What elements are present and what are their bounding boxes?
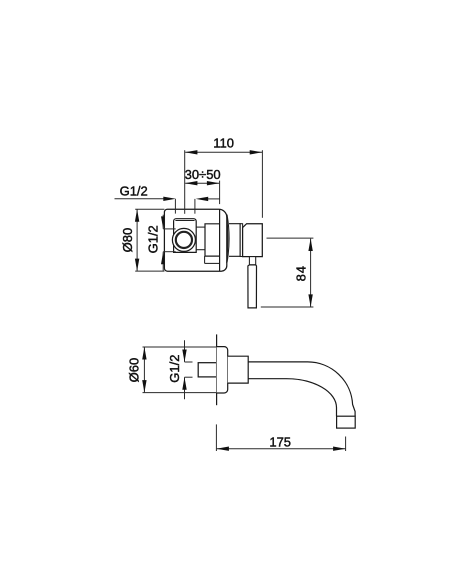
G1/2 bottom dim upper segment	[184, 340, 186, 362]
spout tip box	[337, 416, 356, 428]
G1/2 left dim down arrow	[161, 216, 165, 229]
inlet block top inner line	[175, 220, 194, 222]
spout tube outer line	[248, 362, 355, 416]
ext line right of 110	[261, 150, 263, 218]
Ø80 bottom arrow	[135, 259, 139, 272]
svg-text:110: 110	[213, 136, 234, 151]
wall flange disc	[217, 347, 228, 393]
dim 175 left arrow	[216, 447, 229, 451]
dim 84 vertical line	[310, 239, 312, 307]
dome band right arc	[227, 215, 229, 262]
G1/2 bottom bottom tick	[185, 376, 193, 378]
cartridge inner ring	[176, 232, 192, 248]
svg-text:84: 84	[294, 265, 309, 281]
G1/2 top leader arrow	[163, 197, 176, 201]
dim 84 bottom ref line	[261, 306, 314, 308]
flange behind wall	[205, 224, 219, 256]
G1/2 left dim upper segment	[162, 215, 164, 229]
Ø80 top ext line	[135, 208, 164, 210]
dim Ø60 vertical line	[143, 347, 145, 392]
right leader shaft	[206, 198, 220, 200]
dim 30÷50 line	[185, 182, 219, 184]
svg-text:Ø80: Ø80	[120, 228, 135, 253]
dome band left arc	[227, 214, 228, 263]
dim 84 down arrow	[308, 294, 312, 307]
Ø60 top ext line	[143, 346, 217, 348]
G1/2 top leader shaft	[115, 198, 167, 200]
dim 175 right ext line	[345, 437, 347, 452]
cartridge outer circle	[172, 228, 195, 251]
handle lever	[248, 265, 257, 308]
dim Ø80 vertical line	[136, 210, 138, 271]
step line upper	[196, 226, 205, 228]
G1/2 leader elbow left	[174, 199, 176, 214]
wall line lower segment	[219, 209, 221, 271]
step line lower	[196, 249, 205, 251]
Ø60 top arrow	[142, 347, 146, 360]
right leader arrow	[196, 197, 209, 201]
spout base cylinder	[228, 356, 249, 383]
dim 30÷50 left arrow	[185, 181, 198, 185]
wall line upper segment	[219, 181, 221, 205]
inlet block	[174, 219, 197, 253]
G1/2 bottom top tick	[185, 361, 193, 363]
spout thread tail	[198, 363, 216, 377]
dim 175 left ext line	[215, 424, 217, 451]
G1/2 bottom dim down arrow	[182, 350, 186, 363]
svg-text:G1/2: G1/2	[146, 225, 161, 253]
flange lower step horizontal	[205, 262, 220, 264]
washer	[240, 224, 242, 257]
dim 110 left arrow	[185, 150, 198, 154]
G1/2 bottom dim lower segment	[184, 377, 186, 399]
ext line left (center axis)	[184, 150, 186, 214]
svg-text:175: 175	[269, 435, 291, 450]
G1/2 left dim up arrow	[161, 252, 165, 265]
spout tube inner line	[248, 379, 336, 417]
G1/2 left dim lower segment	[162, 252, 164, 271]
dim 175 right arrow	[333, 447, 346, 451]
flange lower step vertical	[204, 256, 206, 263]
valve body	[164, 209, 226, 271]
G1/2 bottom tangent tick	[163, 251, 176, 253]
svg-text:G1/2: G1/2	[167, 355, 182, 383]
dim 110 right arrow	[250, 150, 263, 154]
right leader elbow	[194, 199, 196, 214]
svg-text:30÷50: 30÷50	[185, 167, 221, 182]
wall line bottom view	[216, 334, 218, 405]
G1/2 top tangent tick	[163, 228, 176, 230]
sleeve	[229, 224, 240, 257]
G1/2 bottom dim up arrow	[182, 377, 186, 390]
Ø60 bottom ext line	[143, 392, 217, 394]
dim 175 line	[217, 448, 346, 450]
dim 84 up arrow	[308, 239, 312, 252]
Ø80 bottom ext line	[135, 270, 164, 272]
Ø80 top arrow	[135, 209, 139, 222]
handle neck	[249, 257, 255, 265]
dim 30÷50 right arrow	[207, 181, 220, 185]
handle knob	[243, 224, 263, 257]
dim 84 top ref line	[267, 237, 314, 239]
svg-text:G1/2: G1/2	[120, 183, 148, 198]
svg-text:Ø60: Ø60	[126, 358, 141, 383]
dim 110 line	[185, 151, 262, 153]
Ø60 bottom arrow	[142, 380, 146, 393]
